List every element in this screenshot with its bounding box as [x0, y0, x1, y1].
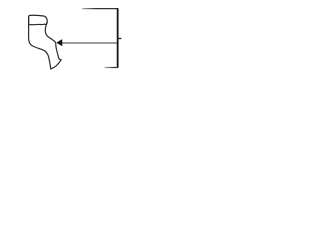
vertical line [117, 8, 119, 67]
hose right wall [45, 22, 61, 60]
hose left wall [29, 18, 51, 69]
top horizontal line [82, 8, 118, 10]
arrowhead [57, 40, 62, 46]
hose bottom cut edge [51, 60, 61, 69]
right stub [118, 38, 122, 40]
arrow shaft [62, 42, 118, 44]
hose rim (top opening) [29, 15, 48, 24]
bottom horizontal line [105, 67, 119, 69]
